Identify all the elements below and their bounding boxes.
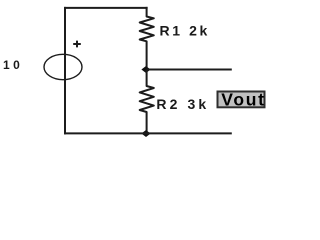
wire: bottom horizontal rail: [64, 132, 232, 134]
voltage source V1: [44, 41, 82, 80]
resistor R2: [140, 70, 154, 135]
svg-text:10: 10: [3, 58, 23, 72]
wire: top horizontal rail: [64, 7, 148, 9]
wire: middle horizontal from node to the right: [147, 69, 232, 71]
net label box Vout: [218, 89, 266, 109]
node junction dot (bottom rail): [142, 131, 149, 136]
svg-text:Vout: Vout: [221, 89, 265, 109]
svg-text:R2 3k: R2 3k: [156, 96, 209, 112]
resistor R1: [140, 7, 154, 70]
svg-text:R1 2k: R1 2k: [160, 23, 210, 39]
node junction dot (divider output node): [142, 67, 149, 72]
wire: left vertical from top rail to bottom rail: [64, 7, 66, 134]
